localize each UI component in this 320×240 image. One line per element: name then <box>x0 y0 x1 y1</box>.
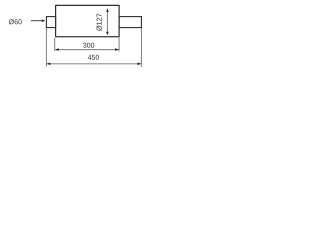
extension line below body right edge <box>118 38 120 52</box>
450 dimension line <box>47 63 141 65</box>
label Ø127 (body diameter, rotated) <box>96 14 101 31</box>
label 300 (body length) <box>83 43 94 48</box>
Ø127 bottom arrowhead <box>106 32 109 36</box>
300 left arrowhead <box>55 48 59 51</box>
extension line below outlet pipe end <box>140 28 142 67</box>
300 dimension line <box>55 49 119 51</box>
leader arrow line for Ø60 <box>31 20 43 22</box>
muffler body: bottom side (softer) <box>55 36 120 38</box>
extension line below inlet pipe <box>45 28 47 67</box>
outlet pipe <box>119 17 141 28</box>
background <box>0 0 150 75</box>
label 450 (overall length) <box>88 55 99 60</box>
450 left arrowhead <box>47 63 51 66</box>
label Ø60 (inlet diameter) <box>9 19 22 24</box>
300 right arrowhead <box>115 48 119 51</box>
extension stub below body left edge <box>54 38 56 51</box>
leader arrowhead <box>42 19 46 22</box>
450 right arrowhead <box>138 63 142 66</box>
Ø127 top arrowhead <box>106 8 109 12</box>
Ø127 dimension line vertical <box>106 11 108 33</box>
inlet pipe stub <box>46 17 55 28</box>
muffler body: left, top, right sides <box>56 5 120 36</box>
